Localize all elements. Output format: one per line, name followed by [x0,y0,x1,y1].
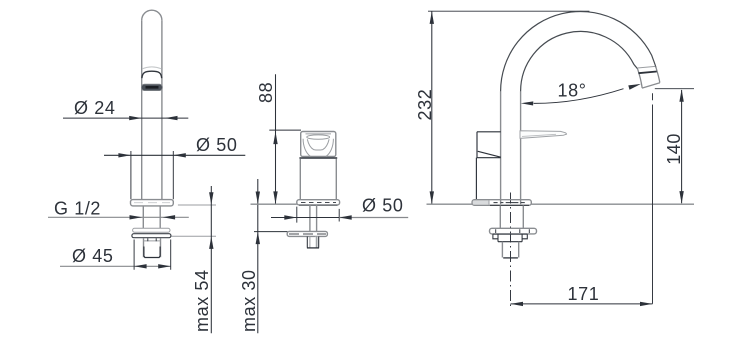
valve view: nut [315,237,318,248]
svg-text:max 54: max 54 [192,269,212,332]
dimension line 88 [275,74,277,204]
spout view: threaded pipe G1/2 [143,206,160,228]
faucet view: tip vertical extension to 171 [652,93,654,304]
valve view: lever cup [307,139,329,150]
faucet view: tip thin ring [637,66,655,68]
faucet view: spout outer contour [500,91,502,204]
valve view: 88 extension line [269,129,301,131]
spout view: washer [133,228,170,232]
dimension line Ø50 (spout) [104,154,245,156]
dimension line G1/2 [48,216,189,218]
spout view: aerator light arc [142,67,161,69]
faucet view: nut [493,234,527,242]
valve view: lever top line [306,133,332,135]
faucet view: deck line [427,203,695,205]
dimension line 171 [511,303,653,305]
faucet view: spout tip face [642,83,660,88]
spout view: aerator dark band [141,84,162,90]
extension lines Ø50 (spout) [131,151,173,199]
svg-text:171: 171 [568,284,600,304]
valve view: body walls [300,159,336,200]
faucet view: washer [490,228,537,234]
svg-text:88: 88 [256,82,276,103]
faucet view: centerline [510,193,512,307]
spout view: tube walls [142,20,162,199]
spout view: tube dome cap [142,10,162,20]
faucet view: base flange [472,200,531,206]
valve view: deck line [251,203,297,205]
faucet view: spout inner contour [520,91,522,204]
spout view: aerator dark dome arc [142,71,162,78]
extension lines Ø45 [134,240,171,270]
extension lines Ø50 (valve) [297,207,339,223]
svg-text:Ø 24: Ø 24 [74,98,115,118]
svg-text:140: 140 [664,133,684,165]
18° angle arc [534,89,624,104]
valve view: lever lens [307,135,330,139]
dimension line 232 [431,11,433,204]
dimension line Ø50 (valve) [271,217,339,219]
svg-text:Ø 45: Ø 45 [72,246,113,266]
faucet view: 140 tip extension line [655,88,694,90]
valve view: threaded rod [310,205,317,232]
faucet view: 232 top extension line [428,10,589,12]
svg-text:232: 232 [415,89,435,121]
valve view: handle side arcs [303,139,333,157]
svg-text:18°: 18° [558,80,587,100]
svg-text:Ø 50: Ø 50 [196,135,237,155]
dimension line Ø24 [63,117,188,119]
dimension line max 30 [257,179,259,333]
max 30 connector line [254,231,288,233]
dimension line max 54 [210,186,212,333]
dimension line Ø45 [60,265,171,267]
svg-text:max 30: max 30 [239,269,259,332]
faucet view: tailpiece [502,242,518,258]
faucet view: tip dark ring [638,72,656,74]
valve view: handle box [301,132,336,157]
spout view: lock nut [132,234,171,238]
faucet view: lever blade [520,131,567,139]
valve view: flange [297,200,340,205]
max 54 connector lines [172,205,217,236]
svg-text:G 1/2: G 1/2 [54,199,101,219]
spout view: flange [131,200,174,206]
spout view: tailpiece [144,238,161,257]
valve view: separation line [299,157,337,159]
faucet view: body left edge [475,158,477,200]
valve view: washer [287,231,327,236]
svg-text:Ø 50: Ø 50 [362,195,403,215]
faucet view: handle block [476,132,500,158]
dimension line 140 [681,90,683,203]
faucet view: under-deck body [500,206,523,229]
